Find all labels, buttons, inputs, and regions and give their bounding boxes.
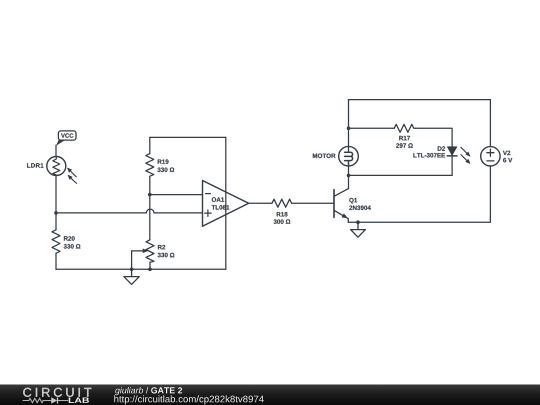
label R20 330ohm xyxy=(64,236,75,241)
wire top rail (R19 top to feedback column) xyxy=(150,136,226,138)
junction emitter / ground xyxy=(356,220,360,224)
wire node A to op-amp plus input (hop over R19/R2 column) xyxy=(56,209,203,213)
wire parallel branch bottom xyxy=(349,174,453,176)
label LDR1 xyxy=(27,163,43,167)
resistor R19 xyxy=(146,154,154,177)
wire R2 wiper to ground rail xyxy=(131,251,133,269)
resistor R20 xyxy=(52,230,60,254)
junction motor bottom / parallel branch xyxy=(347,174,351,178)
wire VCC flag to LDR1 top xyxy=(55,145,57,156)
wire motor bottom xyxy=(348,166,350,176)
motor MOTOR xyxy=(339,146,359,166)
op-amp OA1 xyxy=(203,181,249,227)
wire R17 to D2 anode xyxy=(416,128,452,146)
wire LDR1 to node A xyxy=(55,176,57,213)
junction motor / R17 branch xyxy=(347,127,351,131)
wire R20 to ground rail xyxy=(55,253,57,269)
label D2 LTL-307EE xyxy=(438,146,445,150)
CircuitLab logo wordmark xyxy=(23,388,92,404)
label MOTOR xyxy=(313,154,336,159)
resistor R18 xyxy=(272,199,292,207)
wire R18 to Q1 base xyxy=(292,202,334,204)
resistor R17 xyxy=(394,124,416,132)
label R2 330ohm xyxy=(158,245,165,249)
wire feedback column (top rail to ground rail) xyxy=(225,137,227,269)
VCC power flag xyxy=(56,131,76,146)
wire Q1 collector to motor bottom junction xyxy=(348,175,350,188)
wire R17 branch from junction xyxy=(349,127,395,129)
transistor Q1 xyxy=(334,189,349,223)
wire top rail to R19 xyxy=(149,137,151,153)
label V2 6V xyxy=(503,151,510,155)
wire V2 minus to Q1 emitter xyxy=(358,166,490,222)
junction node A xyxy=(54,211,58,215)
ground rail wire xyxy=(56,268,226,270)
LED D2 xyxy=(447,147,470,164)
footer credit text: giuliarb / GATE 2 xyxy=(115,387,143,395)
wire node B to op-amp minus input xyxy=(150,194,203,196)
label OA1 TL081 xyxy=(212,197,224,202)
voltage source V2 xyxy=(481,147,500,166)
label R18 300ohm xyxy=(277,212,288,217)
label R17 297ohm xyxy=(399,136,410,140)
wire top rail to V2 plus xyxy=(489,100,491,147)
ground symbol xyxy=(124,269,139,284)
junction R2 wiper / ground rail xyxy=(130,268,134,272)
footer url text xyxy=(114,395,263,404)
wire R2 bottom to ground rail xyxy=(149,262,151,269)
wire Q1 emitter to junction xyxy=(348,221,358,223)
wire top rail right xyxy=(349,99,491,101)
wire node A to R20 xyxy=(55,213,57,230)
wire motor branch (top rail to motor) xyxy=(348,100,350,147)
label Q1 2N3904 xyxy=(349,198,357,204)
wire op-amp output to R18 xyxy=(249,202,272,204)
wire node B to R2 top xyxy=(149,195,151,240)
photoresistor LDR1 xyxy=(47,157,77,184)
label R19 330ohm xyxy=(158,159,169,164)
wire LED cathode to parallel branch bottom xyxy=(451,155,453,175)
potentiometer R2 xyxy=(132,240,154,262)
junction R2 bottom / ground rail xyxy=(148,268,152,272)
wire R19 to node B xyxy=(149,176,151,194)
ground symbol xyxy=(351,222,366,237)
junction node B (inverting input) xyxy=(148,193,152,197)
